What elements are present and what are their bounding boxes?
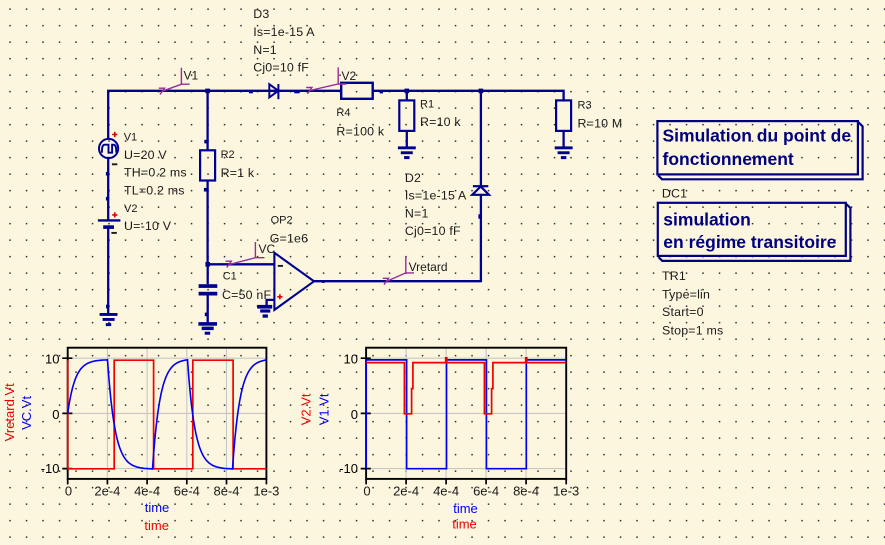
plot2 frame bbox=[366, 348, 566, 479]
svg-text:U=20 V: U=20 V bbox=[124, 148, 167, 162]
svg-text:Cj0=10 fF: Cj0=10 fF bbox=[405, 224, 461, 238]
node junction top R1 bbox=[405, 89, 410, 94]
svg-text:N=1: N=1 bbox=[405, 206, 429, 220]
svg-text:Type=lin: Type=lin bbox=[662, 288, 710, 302]
source V1 (rectangular pulse source) bbox=[99, 139, 118, 158]
svg-text:R=10 M: R=10 M bbox=[578, 117, 623, 131]
wire end dot right of R4 bbox=[380, 91, 383, 94]
svg-text:V1: V1 bbox=[124, 131, 137, 143]
svg-text:V2: V2 bbox=[342, 69, 357, 83]
svg-text:6e-4: 6e-4 bbox=[174, 483, 200, 498]
node V1 bbox=[159, 68, 190, 95]
svg-text:D2: D2 bbox=[405, 171, 421, 185]
svg-text:N=1: N=1 bbox=[253, 43, 277, 57]
svg-text:V2: V2 bbox=[124, 203, 137, 215]
node VC bbox=[226, 242, 265, 268]
V1 minus mark bbox=[112, 163, 117, 165]
wire R3 to ground bbox=[562, 131, 564, 148]
svg-text:en régime transitoire: en régime transitoire bbox=[663, 232, 836, 252]
svg-text:TL=0.2 ms: TL=0.2 ms bbox=[124, 184, 185, 198]
ground under R1 bbox=[398, 146, 416, 159]
wire R2 branch bbox=[206, 91, 208, 151]
plot2 gridlines bbox=[366, 348, 566, 479]
battery plus mark bbox=[112, 212, 117, 217]
svg-text:R2: R2 bbox=[221, 149, 235, 161]
svg-text:Start=0: Start=0 bbox=[662, 305, 704, 319]
svg-text:2e-4: 2e-4 bbox=[393, 483, 419, 498]
svg-text:time: time bbox=[453, 501, 478, 516]
svg-text:-10: -10 bbox=[41, 461, 60, 476]
wire battery to ground bbox=[107, 229, 109, 314]
ground under C1 bbox=[198, 322, 217, 335]
wire R1 branch bbox=[406, 91, 408, 101]
svg-text:R1: R1 bbox=[420, 99, 434, 111]
wire end dot right of diode D3 bbox=[249, 90, 253, 93]
svg-text:V2.Vt: V2.Vt bbox=[299, 393, 314, 425]
plot1 gridlines bbox=[68, 348, 267, 479]
svg-text:6e-4: 6e-4 bbox=[473, 483, 499, 498]
junction node dots bbox=[106, 89, 483, 317]
op-amp OP2 bbox=[274, 253, 314, 310]
svg-text:Cj0=10 fF: Cj0=10 fF bbox=[253, 61, 309, 75]
svg-text:Stop=1 ms: Stop=1 ms bbox=[662, 324, 723, 338]
resistor R1 bbox=[399, 100, 414, 130]
diode D3 bbox=[269, 84, 278, 99]
wire end dot below R2 bbox=[204, 188, 207, 192]
node Vretard bbox=[383, 257, 414, 285]
svg-text:C=50 nF: C=50 nF bbox=[222, 288, 271, 302]
svg-text:10: 10 bbox=[45, 352, 59, 367]
wire D2 branch top bbox=[480, 91, 482, 187]
svg-text:0: 0 bbox=[65, 483, 72, 498]
svg-text:simulation: simulation bbox=[663, 209, 751, 229]
svg-text:-10: -10 bbox=[339, 461, 358, 476]
plot1 blue curve VC.Vt bbox=[68, 360, 267, 469]
wire node to opamp minus bbox=[208, 263, 275, 265]
svg-text:fonctionnement: fonctionnement bbox=[663, 149, 794, 169]
node junction C1/opamp bbox=[205, 262, 210, 267]
wire C1 to ground bbox=[207, 296, 209, 325]
plot2 x labels bbox=[363, 483, 579, 498]
svg-text:Vretard.Vt: Vretard.Vt bbox=[2, 383, 17, 441]
svg-text:4e-4: 4e-4 bbox=[433, 483, 459, 498]
plot1 frame bbox=[68, 348, 267, 479]
node junction top R2 bbox=[205, 89, 210, 94]
svg-text:D3: D3 bbox=[253, 7, 269, 21]
plot2 blue curve V1.Vt bbox=[366, 360, 566, 469]
wire end dot above battery bbox=[106, 197, 109, 201]
svg-text:G=1e6: G=1e6 bbox=[270, 232, 309, 246]
svg-text:8e-4: 8e-4 bbox=[213, 483, 239, 498]
ground under R3 bbox=[555, 146, 573, 159]
battery minus mark bbox=[111, 232, 116, 234]
svg-text:time: time bbox=[145, 500, 170, 515]
svg-text:V1: V1 bbox=[184, 69, 199, 83]
ground at op-amp plus input bbox=[257, 305, 272, 318]
resistor R4 (horizontal) bbox=[341, 83, 373, 99]
resistor R2 bbox=[200, 150, 215, 180]
resistor R3 bbox=[556, 100, 571, 130]
svg-text:8e-4: 8e-4 bbox=[513, 483, 539, 498]
plot1 axis ticks bbox=[62, 358, 266, 484]
op-amp plus sign bbox=[277, 294, 282, 299]
wire left branch V1-battery bbox=[107, 157, 109, 220]
TR simulation box bbox=[658, 203, 851, 261]
V1 plus mark bbox=[112, 132, 117, 137]
DC simulation box bbox=[657, 121, 862, 179]
wire R2 to node bbox=[206, 181, 208, 265]
wire end dot below V1 bbox=[106, 172, 109, 176]
svg-text:TR1: TR1 bbox=[662, 269, 686, 283]
svg-text:0: 0 bbox=[351, 407, 358, 422]
wire end dot opamp output bbox=[322, 281, 325, 283]
wire R1 to ground bbox=[406, 131, 408, 148]
svg-text:U=-10 V: U=-10 V bbox=[124, 219, 172, 233]
svg-text:R=10 k: R=10 k bbox=[420, 115, 461, 129]
wire top horizontal bbox=[108, 91, 563, 140]
wire end dot above left ground bbox=[106, 305, 109, 309]
plot1 red curve Vretard.Vt bbox=[68, 360, 267, 469]
plot2 axis ticks bbox=[361, 358, 567, 484]
wire end dot above R2 bbox=[204, 140, 207, 144]
plot2 red curve V2.Vt bbox=[366, 358, 566, 414]
capacitor C1 bbox=[199, 284, 218, 295]
svg-text:time: time bbox=[452, 516, 477, 531]
svg-text:Simulation du point de: Simulation du point de bbox=[663, 126, 852, 146]
svg-text:R=100 k: R=100 k bbox=[336, 124, 384, 138]
svg-text:OP2: OP2 bbox=[271, 214, 293, 226]
svg-text:1e-3: 1e-3 bbox=[253, 483, 279, 498]
svg-text:time: time bbox=[144, 518, 169, 533]
wire opamp plus lead bbox=[267, 300, 275, 307]
wire opamp output horizontal bbox=[314, 280, 481, 282]
wire end dot on C1 stem bbox=[205, 313, 208, 317]
wire D2 bottom vertical bbox=[480, 195, 482, 281]
svg-text:VC.Vt: VC.Vt bbox=[19, 396, 34, 430]
svg-text:R3: R3 bbox=[578, 100, 592, 112]
node junction top D2 bbox=[479, 89, 484, 94]
wire end dot left of R4 bbox=[294, 90, 300, 93]
svg-text:R=1 k: R=1 k bbox=[221, 166, 255, 180]
wire node to C1 bbox=[207, 264, 209, 284]
plot1 x labels bbox=[65, 483, 280, 498]
node V2 bbox=[306, 67, 346, 93]
op-amp minus sign bbox=[278, 265, 283, 267]
svg-text:TH=0.2 ms: TH=0.2 ms bbox=[124, 166, 187, 180]
ground left bbox=[100, 313, 118, 326]
svg-text:2e-4: 2e-4 bbox=[94, 483, 120, 498]
svg-text:4e-4: 4e-4 bbox=[134, 483, 160, 498]
battery V2 bbox=[98, 220, 121, 229]
svg-text:0: 0 bbox=[363, 483, 370, 498]
svg-text:Vretard: Vretard bbox=[409, 260, 448, 274]
svg-text:C1: C1 bbox=[223, 271, 237, 283]
diode D2 (vertical, pointing up) bbox=[472, 186, 489, 195]
wire end dot below D2 bbox=[478, 214, 482, 218]
svg-text:Is=1e-15 A: Is=1e-15 A bbox=[253, 25, 315, 39]
svg-text:R4: R4 bbox=[336, 107, 350, 119]
svg-text:10: 10 bbox=[344, 352, 358, 367]
svg-text:V1.Vt: V1.Vt bbox=[317, 393, 332, 425]
svg-text:1e-3: 1e-3 bbox=[553, 483, 579, 498]
svg-text:Is=1e-15 A: Is=1e-15 A bbox=[405, 189, 467, 203]
svg-text:DC1: DC1 bbox=[662, 187, 687, 201]
svg-text:0: 0 bbox=[52, 407, 59, 422]
